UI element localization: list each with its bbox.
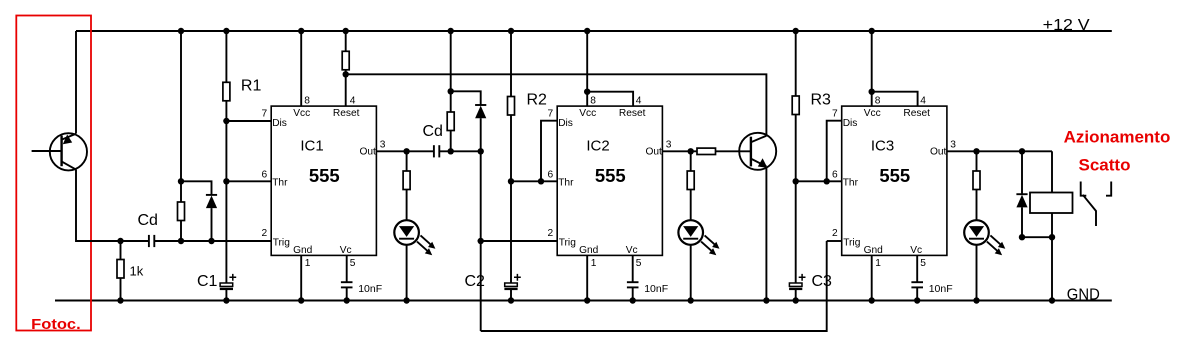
- svg-text:Thr: Thr: [558, 177, 574, 188]
- svg-text:Trig: Trig: [843, 237, 861, 248]
- LED3 series resistor: [976, 151, 978, 171]
- phototransistor Q1: [50, 133, 87, 170]
- svg-text:Trig: Trig: [273, 237, 291, 248]
- IC2 Dis pin 7 jog: [541, 121, 557, 182]
- wire IC2 Vcc pin 8 to rail: [586, 31, 588, 106]
- svg-text:Gnd: Gnd: [293, 245, 313, 256]
- svg-text:5: 5: [920, 258, 926, 269]
- svg-text:Dis: Dis: [558, 118, 573, 129]
- IC3 Vc pin 5 10nF cap: [916, 255, 918, 282]
- resistor R3: [795, 31, 797, 96]
- LED D2 (IC1 output): [394, 220, 419, 245]
- junction rail at R1: [223, 28, 229, 34]
- svg-text:IC3: IC3: [871, 138, 894, 155]
- junction IC1 gnd: [298, 297, 304, 303]
- svg-text:Gnd: Gnd: [579, 245, 599, 256]
- svg-text:Vcc: Vcc: [293, 108, 310, 119]
- IC1 Vc pin 5 10nF cap: [346, 255, 348, 282]
- junction Dis jog IC3: [824, 178, 830, 184]
- svg-text:8: 8: [304, 95, 310, 106]
- svg-text:3: 3: [666, 140, 672, 151]
- svg-text:1: 1: [305, 258, 311, 269]
- junction C1 ground: [223, 297, 229, 303]
- junction rail at R2: [508, 28, 514, 34]
- svg-text:10nF: 10nF: [644, 283, 668, 295]
- svg-text:555: 555: [595, 165, 626, 186]
- svg-text:3: 3: [950, 140, 956, 151]
- svg-text:C3: C3: [812, 273, 833, 290]
- junction relay ground: [1049, 297, 1055, 303]
- stage2 pull-up resistor: [450, 91, 452, 112]
- svg-text:6: 6: [832, 169, 838, 180]
- junction rail IC1 pin8: [298, 28, 304, 34]
- wire base resistor to Q2: [716, 150, 751, 152]
- svg-text:+12 V: +12 V: [1043, 17, 1090, 34]
- svg-text:2: 2: [548, 228, 554, 239]
- svg-text:Out: Out: [930, 147, 947, 158]
- wire Thr node down to C1 (crosses trig line): [225, 181, 227, 283]
- junction rail IC2 pin8: [584, 28, 590, 34]
- wire to IC1 Dis pin 7: [226, 120, 271, 122]
- wire relay coil bottom: [1051, 213, 1053, 237]
- svg-text:2: 2: [832, 228, 838, 239]
- junction LED1 ground: [403, 297, 409, 303]
- svg-text:Dis: Dis: [843, 118, 858, 129]
- svg-text:555: 555: [309, 165, 340, 186]
- wire IC2 trig pin 2: [481, 240, 558, 242]
- svg-text:IC1: IC1: [300, 138, 323, 155]
- junction 1k to ground: [117, 297, 123, 303]
- wire IC3 Out pin 3: [947, 150, 1052, 152]
- resistor R1: [225, 31, 227, 82]
- svg-text:10nF: 10nF: [358, 283, 382, 295]
- svg-text:C2: C2: [465, 273, 486, 290]
- diode D3 (stage2 clamp): [475, 104, 486, 106]
- junction IC1 vc cap ground: [344, 297, 350, 303]
- junction Thr node IC1: [223, 178, 229, 184]
- wire LED3 to ground: [976, 245, 978, 301]
- junction R1 to Dis: [223, 118, 229, 124]
- svg-text:Dis: Dis: [272, 118, 287, 129]
- svg-text:Cd: Cd: [423, 123, 443, 140]
- junction LED1 branch: [403, 148, 409, 154]
- svg-text:Thr: Thr: [272, 177, 288, 188]
- svg-text:8: 8: [590, 95, 596, 106]
- wire IC3 Gnd pin 1 to ground: [871, 255, 873, 300]
- svg-text:Vc: Vc: [626, 245, 638, 256]
- switch right contact: [1106, 182, 1111, 196]
- IC2 Reset pin 4 tie to Vcc: [587, 92, 633, 106]
- svg-text:Trig: Trig: [559, 237, 577, 248]
- junction Dis jog IC2: [538, 178, 544, 184]
- IC2 Vc pin 5 10nF cap: [632, 255, 634, 282]
- wire Dis to Thr: [225, 121, 227, 181]
- wire to IC1 Thr pin 6: [226, 180, 271, 182]
- junction rail at R3: [793, 28, 799, 34]
- wire Cd to stage2 trig node: [439, 150, 480, 152]
- wire rail to stage2 pull-up: [450, 31, 452, 91]
- junction IC2 vc cap ground: [630, 297, 636, 303]
- junction stage2 pull-up top: [448, 88, 454, 94]
- wire C1 to ground: [225, 290, 227, 301]
- wire Thr node down to C2: [510, 181, 512, 283]
- resistor R2: [510, 31, 512, 97]
- svg-text:Out: Out: [359, 147, 376, 158]
- svg-text:Cd: Cd: [138, 212, 158, 229]
- junction Thr node IC3: [793, 178, 799, 184]
- svg-text:4: 4: [636, 95, 642, 106]
- wire IC1 Vcc pin 8 to rail: [300, 31, 302, 106]
- junction rail reset resistor: [343, 28, 349, 34]
- svg-text:1: 1: [875, 258, 881, 269]
- red box around phototransistor (Fotoc.): [16, 16, 91, 331]
- svg-text:5: 5: [636, 258, 642, 269]
- wire +12V to trig pull-up: [180, 31, 182, 181]
- IC3 Reset pin 4 tie to Vcc: [872, 92, 918, 106]
- junction IC2 reset tie: [584, 89, 590, 95]
- svg-text:6: 6: [262, 169, 268, 180]
- svg-text:GND: GND: [1067, 286, 1100, 303]
- wire diode to relay bottom node: [1022, 236, 1052, 238]
- diode D1 (trig clamp): [206, 194, 217, 196]
- svg-text:R1: R1: [241, 78, 262, 95]
- wire LED1 to ground: [406, 245, 408, 301]
- wire IC1 Gnd pin 1 to ground: [300, 255, 302, 300]
- svg-text:IC2: IC2: [586, 138, 609, 155]
- wire out to relay coil: [1051, 151, 1053, 192]
- junction relay bottom: [1049, 234, 1055, 240]
- IC3 Dis pin 7 jog: [827, 121, 842, 182]
- wire IC2 Out pin 3: [662, 150, 697, 152]
- LED D5 (IC3 output): [964, 220, 989, 245]
- junction C3 ground: [793, 297, 799, 303]
- svg-text:2: 2: [262, 228, 268, 239]
- junction rail at x=181: [178, 28, 184, 34]
- svg-text:8: 8: [875, 95, 881, 106]
- svg-text:1: 1: [591, 258, 597, 269]
- junction IC2 trig: [478, 238, 484, 244]
- svg-text:Vc: Vc: [340, 245, 352, 256]
- junction IC3 vc cap ground: [914, 297, 920, 303]
- junction IC3 gnd: [869, 297, 875, 303]
- wire coupling node to IC2 trig line: [480, 151, 482, 241]
- wire LED2 to ground: [690, 245, 692, 301]
- svg-text:Reset: Reset: [333, 108, 360, 119]
- capacitor C3: [789, 283, 802, 286]
- svg-text:6: 6: [548, 169, 554, 180]
- svg-text:R3: R3: [811, 92, 832, 109]
- flyback diode D6: [1021, 151, 1023, 194]
- wire IC3 Vcc pin 8 to rail: [871, 31, 873, 106]
- junction at 1k resistor top: [117, 238, 123, 244]
- trig pull-up resistor: [180, 181, 182, 202]
- wire IC2 Thr pin 6: [511, 180, 557, 182]
- op IC1 555 timer body: [271, 106, 376, 255]
- reset wire to Q2 collector: [346, 74, 767, 135]
- svg-text:C1: C1: [197, 273, 218, 290]
- svg-text:7: 7: [832, 109, 838, 120]
- resistor 1k: [120, 241, 122, 260]
- switch left contact: [1081, 182, 1087, 196]
- junction LED2 branch: [688, 148, 694, 154]
- svg-text:Gnd: Gnd: [864, 245, 884, 256]
- junction rail stage2 pull-up: [448, 28, 454, 34]
- junction IC3 reset tie: [869, 89, 875, 95]
- svg-text:Vcc: Vcc: [579, 108, 596, 119]
- svg-text:Scatto: Scatto: [1079, 156, 1131, 175]
- transistor Q2 (NPN driver): [739, 133, 776, 170]
- Q2 base resistor: [697, 148, 716, 154]
- svg-text:555: 555: [879, 165, 910, 186]
- wire Cd to IC1 Trig pin 2: [154, 240, 271, 242]
- capacitor Cd (stage 1-2 coupling): [433, 145, 435, 157]
- svg-text:R2: R2: [527, 92, 548, 109]
- wire relay node to ground: [1051, 237, 1053, 300]
- bottom feedback wire to IC3 trig: [481, 241, 827, 331]
- svg-text:4: 4: [920, 95, 926, 106]
- junction C2 ground: [508, 297, 514, 303]
- wire Thr node down to C3: [795, 181, 797, 283]
- junction stage2 coupling node: [478, 148, 484, 154]
- junction LED3 branch: [973, 148, 979, 154]
- svg-text:Vcc: Vcc: [864, 108, 881, 119]
- bridge wire to stage2 diode: [451, 91, 481, 105]
- svg-text:Out: Out: [645, 147, 662, 158]
- ground rail: [55, 299, 1112, 301]
- phototransistor Q1 collector wire: [75, 31, 77, 134]
- op IC2 555 timer body: [557, 106, 662, 255]
- svg-text:7: 7: [548, 109, 554, 120]
- svg-text:Vc: Vc: [910, 245, 922, 256]
- wire IC1 Out pin 3: [376, 150, 434, 152]
- Q2 emitter wire to ground: [765, 167, 767, 301]
- junction IC2 gnd: [584, 297, 590, 303]
- junction pull-up top node: [178, 178, 184, 184]
- wire trig node to Cd: [121, 240, 149, 242]
- switch arm: [1083, 195, 1096, 226]
- +12V power rail: [76, 30, 1112, 32]
- junction pull-up resistor bottom on trig line: [178, 238, 184, 244]
- capacitor C2: [505, 283, 518, 286]
- svg-text:Reset: Reset: [619, 108, 646, 119]
- wire IC3 trig pin 2: [827, 240, 842, 242]
- bridge wire to pull-up diode: [181, 181, 212, 195]
- wire IC2 Gnd pin 1 to ground: [586, 255, 588, 300]
- junction rail IC3 pin8: [869, 28, 875, 34]
- junction LED2 ground: [688, 297, 694, 303]
- reset pull-up resistor: [345, 31, 347, 51]
- svg-text:4: 4: [350, 95, 356, 106]
- junction diode bottom: [1019, 234, 1025, 240]
- svg-text:1k: 1k: [130, 264, 144, 279]
- LED D4 (IC2 output): [678, 220, 703, 245]
- junction Q2 emitter ground: [763, 297, 769, 303]
- LED1 series resistor: [406, 151, 408, 171]
- junction relay diode branch: [1019, 148, 1025, 154]
- wire C2 to ground: [510, 290, 512, 301]
- wire C3 to ground: [795, 290, 797, 301]
- svg-text:10nF: 10nF: [929, 283, 953, 295]
- Q1 emitter wire down and right to trig node: [76, 170, 121, 241]
- capacitor C1: [220, 283, 233, 286]
- relay coil K1: [1030, 193, 1073, 214]
- svg-text:Azionamento: Azionamento: [1064, 128, 1171, 147]
- wire IC3 Thr pin 6: [796, 180, 842, 182]
- svg-text:5: 5: [350, 258, 356, 269]
- svg-text:3: 3: [380, 140, 386, 151]
- svg-text:Thr: Thr: [843, 177, 859, 188]
- junction LED3 ground: [973, 297, 979, 303]
- svg-text:Reset: Reset: [903, 108, 930, 119]
- capacitor Cd (input coupling): [148, 235, 150, 247]
- junction Thr node IC2: [508, 178, 514, 184]
- junction pull-up diode bottom on trig line: [208, 238, 214, 244]
- svg-text:Fotoc.: Fotoc.: [31, 316, 80, 333]
- junction stage2 pull-up resistor: [448, 148, 454, 154]
- svg-text:7: 7: [262, 109, 268, 120]
- junction reset node: [343, 71, 349, 77]
- op IC3 555 timer body: [842, 106, 947, 255]
- wire trig node down to bottom feedback wire (crosses ground rail): [480, 241, 482, 331]
- LED2 series resistor: [690, 151, 692, 171]
